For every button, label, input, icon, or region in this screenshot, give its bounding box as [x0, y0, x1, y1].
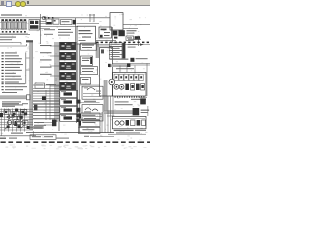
wire — [33, 109, 59, 111]
pin list row 1 — [2, 52, 17, 53]
wire bundle right — [102, 96, 113, 133]
junction blob 2 — [76, 108, 80, 112]
toolbar zoom-in icon — [15, 1, 21, 7]
harness bus vertical right — [104, 80, 107, 112]
wire right edge — [146, 63, 148, 96]
wire — [80, 102, 100, 104]
wire — [33, 115, 59, 117]
pin list row 4 — [2, 61, 21, 62]
wire — [44, 124, 52, 126]
relay K2 — [53, 19, 59, 24]
cluster top text — [2, 103, 28, 104]
indicator block 2 — [131, 84, 135, 90]
pin list row 7 — [2, 70, 22, 71]
relay symbol box 2 — [12, 112, 19, 117]
revision text — [114, 130, 146, 131]
dark blob h — [14, 123, 17, 126]
revision text 2 — [116, 132, 140, 133]
long wire bottom — [26, 132, 114, 134]
wire — [26, 69, 30, 71]
wire — [97, 45, 112, 47]
under-bank text 2 — [0, 39, 12, 40]
wire — [80, 84, 100, 86]
dark blob g — [19, 116, 22, 119]
grey stroke 2 — [16, 121, 23, 122]
wire — [33, 103, 59, 105]
cluster pins — [115, 96, 145, 98]
junction area frame — [1, 108, 33, 135]
terminal hatch edge — [122, 43, 125, 58]
harness bus horizontal left — [0, 95, 30, 100]
ignition switch SW1 — [99, 27, 112, 38]
bottom text left — [0, 138, 17, 139]
wire — [40, 23, 47, 25]
pin list row 3 — [2, 58, 22, 59]
gauge dial 1 — [114, 84, 119, 89]
fuse box B — [81, 56, 93, 65]
text row — [2, 89, 24, 90]
mid text rows — [34, 122, 46, 128]
wire — [33, 117, 59, 119]
wire — [33, 118, 55, 120]
legend box bottom — [30, 135, 56, 140]
relay block RB5 — [59, 82, 76, 90]
wire — [33, 98, 59, 100]
grey jumper — [108, 64, 130, 67]
band end box — [133, 108, 140, 115]
text row — [2, 83, 26, 84]
wire — [0, 111, 33, 113]
diode symbol — [6, 115, 10, 119]
label above dashes — [128, 39, 141, 40]
wire — [0, 126, 33, 128]
relay symbol box 4 — [14, 120, 21, 125]
component circle 2 — [17, 116, 21, 120]
ac label — [128, 44, 138, 48]
pin list row 8 — [2, 73, 16, 74]
wire — [0, 124, 33, 126]
pin list row 9 — [2, 76, 21, 77]
bank bottom wire — [0, 33, 30, 34]
transformer T1 — [29, 20, 40, 31]
gauge dial 0 — [109, 79, 115, 85]
relay symbol box 3 — [20, 110, 26, 115]
toolbar zoom-out icon — [20, 1, 26, 7]
relay box A — [81, 43, 97, 50]
dark blob f — [12, 115, 15, 118]
cab main box — [100, 47, 113, 96]
dark connector stack — [52, 120, 56, 127]
fuse label 1 — [40, 45, 52, 46]
starter label — [127, 30, 137, 33]
cluster lower text — [11, 133, 23, 134]
wire — [112, 62, 150, 64]
relay block RB1 — [59, 42, 76, 50]
junction dark blob — [76, 114, 79, 117]
relay symbol box — [4, 110, 10, 114]
wire — [33, 89, 59, 91]
vertical wire — [75, 18, 77, 42]
label right — [136, 58, 148, 59]
wire — [0, 121, 33, 123]
title text top-left — [1, 14, 22, 15]
wire — [40, 28, 51, 30]
label text 2 — [44, 34, 53, 35]
wire bundle vertical — [55, 42, 59, 131]
viewer toolbar — [0, 0, 150, 6]
wire long right — [123, 23, 150, 25]
indicator block 3 — [136, 84, 145, 90]
washer pump box — [82, 105, 103, 121]
fuse label 4 — [40, 67, 52, 68]
relay block RB2 — [59, 52, 76, 60]
wire — [0, 116, 33, 118]
solenoid valve SV4 — [60, 115, 78, 122]
label row — [109, 59, 128, 60]
wire under unit — [108, 133, 146, 135]
harness stub bottom left — [30, 126, 44, 129]
label row2 — [116, 68, 134, 69]
bus junction dots — [44, 17, 53, 19]
dark connector blob — [130, 58, 134, 62]
diag mark 1 — [5, 126, 9, 129]
wire — [8, 108, 10, 131]
vertical feed wire — [40, 14, 42, 44]
corner dark mark — [73, 20, 76, 25]
control box 2 — [78, 120, 100, 126]
fuse label 5 — [40, 74, 52, 75]
label text — [44, 29, 55, 30]
harness stub mid — [96, 42, 99, 58]
cluster label — [131, 99, 146, 100]
wire — [40, 21, 47, 23]
battery feed labels — [58, 29, 73, 36]
starter relay cluster — [112, 30, 124, 38]
glow plug bank CN1 — [0, 19, 27, 30]
wire — [16, 108, 18, 131]
fold mark dashed band — [1, 141, 153, 143]
wire — [33, 91, 59, 93]
wire — [50, 65, 59, 67]
vertical wire — [137, 36, 139, 46]
junction blob 1 — [76, 100, 80, 104]
wire — [77, 23, 100, 25]
relay block RB4 — [59, 72, 76, 80]
vertical wire — [45, 90, 47, 120]
fuse box small — [126, 36, 134, 40]
wire — [33, 103, 59, 105]
control box 1 — [78, 113, 100, 119]
text row — [2, 101, 21, 102]
diag mark 2 — [12, 114, 15, 117]
relay K1 — [46, 19, 52, 24]
dark terminal marks — [135, 36, 140, 40]
vertical wire — [49, 84, 51, 120]
battery box B1 — [110, 13, 123, 30]
wire — [50, 75, 59, 77]
relay block RB3 — [59, 62, 76, 70]
terminal row 2 — [109, 47, 122, 51]
wire — [0, 129, 33, 131]
component circle 1 — [8, 120, 12, 124]
wire — [33, 106, 59, 108]
control box 3 — [78, 127, 100, 133]
harness bus horizontal right — [104, 111, 133, 114]
wire — [97, 43, 150, 45]
wire — [24, 108, 26, 131]
wiper motor box — [82, 86, 103, 99]
edge dark mark — [0, 113, 3, 117]
bank tick marks — [2, 31, 26, 33]
harness bus vertical left — [26, 40, 33, 130]
solenoid valve SV3 — [60, 107, 78, 114]
monitor panel assembly — [112, 72, 146, 96]
frame dashed line top-right — [96, 42, 149, 44]
pin list row 10 — [2, 79, 22, 80]
pin list row 6 — [2, 67, 20, 68]
fuse label 3 — [40, 59, 52, 60]
wire — [0, 108, 33, 110]
tiny label — [84, 136, 89, 137]
wire — [147, 106, 149, 116]
wire — [33, 87, 59, 89]
wire — [4, 108, 6, 131]
pin list vertical wire — [25, 52, 27, 84]
diag mark 3 — [21, 125, 24, 128]
text row — [2, 86, 28, 87]
wire — [33, 84, 59, 86]
wire — [0, 113, 33, 115]
wire — [26, 57, 30, 59]
wire — [33, 100, 59, 102]
wire — [33, 101, 59, 103]
text row — [2, 92, 17, 93]
wire — [0, 43, 21, 45]
engine controller MC — [77, 26, 96, 44]
pin list row 5 — [2, 64, 23, 65]
text row — [2, 104, 23, 105]
mid text — [46, 84, 56, 85]
drop wire — [134, 66, 136, 73]
wire — [50, 55, 59, 57]
label — [84, 101, 96, 102]
wire — [123, 28, 138, 30]
toolbar open icon — [1, 1, 5, 5]
drop wire — [119, 66, 121, 73]
wire — [33, 95, 59, 97]
junction dark blob 2 — [76, 119, 79, 122]
relay box C — [81, 67, 98, 75]
grey stroke — [8, 116, 14, 118]
relay box D — [81, 77, 91, 84]
label — [56, 138, 69, 139]
pin list row 11 — [2, 82, 19, 83]
solenoid valve SV1 — [60, 91, 78, 98]
terminal row 4 — [109, 55, 122, 59]
wire — [33, 115, 60, 117]
wire — [20, 108, 22, 131]
bus wire top — [0, 17, 110, 19]
relay symbol box 5 — [22, 121, 28, 125]
aircon unit box — [112, 116, 146, 128]
fusible link box — [61, 20, 73, 25]
toolbar 1:1 icon — [27, 1, 30, 4]
drop wire — [126, 66, 128, 73]
dark blob e — [27, 126, 30, 129]
wire — [0, 135, 36, 137]
mid marks — [34, 105, 37, 111]
wire — [33, 92, 59, 94]
wire — [50, 85, 59, 87]
gauge dial 2 — [119, 84, 124, 89]
fuse label 2 — [40, 52, 52, 53]
text under cluster — [115, 101, 133, 105]
wire — [112, 64, 150, 66]
dark blob c — [7, 125, 10, 128]
wire — [50, 45, 59, 47]
dark blob d — [17, 125, 20, 128]
under-bank text — [0, 37, 16, 38]
terminal row 1 — [109, 42, 122, 46]
wire — [96, 40, 116, 42]
junction blob mid — [42, 96, 46, 100]
wire — [33, 106, 59, 108]
wire — [0, 44, 27, 46]
horn icon — [139, 97, 147, 104]
label right of band — [141, 110, 150, 113]
dark blob a — [15, 109, 18, 112]
wire — [107, 115, 114, 117]
indicator block — [125, 84, 129, 90]
toolbar page icon — [6, 1, 12, 7]
column right wire — [76, 42, 78, 123]
wire — [12, 108, 14, 131]
wire — [40, 26, 79, 28]
arrow mark right — [140, 43, 143, 45]
cluster top text 2 — [2, 106, 15, 107]
wire pair up — [89, 14, 95, 22]
terminal row 3 — [109, 51, 122, 55]
wire stub mid-bottom — [90, 135, 114, 137]
dark blob b — [24, 112, 27, 115]
lamp symbol — [42, 16, 45, 19]
mid box small — [35, 83, 45, 88]
solenoid valve SV2 — [60, 99, 78, 106]
wire — [44, 121, 52, 123]
wire — [33, 111, 60, 113]
vertical wire — [112, 27, 114, 42]
wire — [0, 119, 33, 121]
bus wires vertical — [78, 44, 80, 133]
wire — [33, 112, 59, 114]
pin list row 2 — [2, 55, 19, 56]
